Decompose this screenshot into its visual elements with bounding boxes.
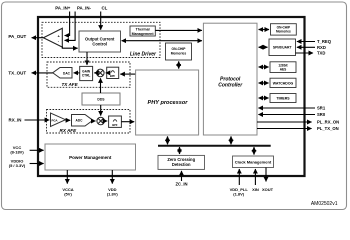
block PHY processor (136, 70, 199, 135)
pin VDD_PLL (230, 169, 249, 197)
wire Output Current Control to Protocol Controller (bidirectional) (122, 40, 202, 42)
mixer RX (97, 117, 105, 125)
wire PHY processor to BPF TX (120, 73, 135, 75)
wire ADC to mixer RX (93, 120, 96, 122)
svg-text:RX_IN: RX_IN (9, 118, 22, 123)
block SPI/6/UART (269, 39, 296, 56)
svg-text:TXD: TXD (317, 51, 325, 56)
wire Protocol Controller to bus (230, 136, 232, 144)
pin CL (101, 6, 108, 30)
pin VDD (107, 170, 119, 197)
RX AFE block (47, 110, 131, 134)
pin T_REQ (297, 39, 332, 44)
svg-text:TX AFE: TX AFE (62, 82, 79, 87)
svg-text:Management: Management (132, 32, 155, 36)
svg-text:XIN: XIN (252, 187, 259, 192)
svg-text:AES: AES (280, 67, 287, 71)
svg-text:Clock Management: Clock Management (235, 160, 272, 165)
pin TXD (296, 51, 326, 56)
system bus (158, 145, 271, 147)
block Power Management (45, 144, 136, 170)
filter BPF RX (109, 116, 122, 127)
block Clock Management (233, 156, 274, 168)
pin SR1 (258, 106, 325, 111)
wire Protocol Controller to 128bit AES (259, 66, 269, 68)
svg-text:DDS: DDS (97, 98, 105, 102)
wire PHY processor to bus (167, 136, 169, 144)
pin PL_TX_ON (257, 126, 339, 131)
svg-text:CTRL: CTRL (82, 73, 91, 77)
op-amp A1 line driver amplifier (43, 28, 62, 47)
svg-text:PA_IN-: PA_IN- (77, 6, 92, 11)
svg-text:XOUT: XOUT (262, 187, 274, 192)
svg-text:Controller: Controller (218, 83, 243, 89)
wire mixer RX to BPF RX (105, 120, 108, 122)
svg-text:PGA: PGA (52, 118, 58, 122)
DAC U2 (53, 68, 72, 79)
pin XOUT (262, 168, 274, 192)
svg-text:ON-CHIP: ON-CHIP (172, 47, 187, 51)
ADC U3 (72, 115, 93, 127)
mixer TX (97, 69, 105, 77)
filter BPF TX (107, 67, 119, 78)
wire DDS to mixer RX (100, 105, 102, 116)
svg-text:(5V): (5V) (64, 192, 72, 197)
svg-text:Control: Control (92, 42, 107, 47)
block Thermal Management (130, 26, 155, 36)
svg-text:(8-18V): (8-18V) (10, 149, 24, 154)
svg-text:PA_OUT: PA_OUT (8, 34, 26, 39)
svg-text:(5 / 3.3V): (5 / 3.3V) (9, 163, 26, 168)
svg-text:TX_OUT: TX_OUT (8, 70, 26, 75)
block GAIN CTRL (80, 66, 93, 80)
pin TX_OUT (8, 70, 52, 75)
svg-text:AM02502v1: AM02502v1 (311, 201, 338, 207)
svg-text:T_REQ: T_REQ (317, 39, 332, 44)
pin VCC (10, 145, 43, 155)
pin RX_IN (9, 118, 50, 123)
pin RXD (297, 45, 326, 50)
pin VDDIO (9, 158, 44, 168)
wire PGA to ADC (66, 119, 71, 121)
svg-text:SR1: SR1 (317, 106, 326, 111)
svg-text:PL_RX_ON: PL_RX_ON (317, 120, 339, 125)
block Protocol Controller (203, 23, 257, 135)
pin PA_OUT (8, 34, 43, 39)
block Output Current Control (79, 31, 121, 52)
block TIMERS (270, 94, 296, 103)
wire BPF TX to mixer TX (106, 72, 107, 74)
pin SR0 (258, 112, 325, 117)
block ON-CHIP Memories (protocol) (271, 24, 297, 35)
wire feedback from amplifier to Output Current Control (62, 47, 77, 49)
wire Thermal Management to Protocol Controller (155, 29, 202, 31)
wire BPF RX to PHY processor (121, 121, 134, 123)
svg-text:ZC_IN: ZC_IN (175, 181, 187, 186)
svg-text:ADC: ADC (76, 119, 84, 123)
wire ON-CHIP Memories to PHY processor (178, 61, 180, 68)
block Zero Crossing Detection (158, 155, 205, 169)
Line Driver block (42, 22, 160, 57)
svg-text:SR0: SR0 (317, 112, 326, 117)
pin PL_RX_ON (257, 120, 339, 125)
wire bus to Zero Crossing Detection (179, 147, 181, 154)
svg-text:Detection: Detection (172, 162, 191, 167)
svg-text:(1.8V): (1.8V) (233, 192, 245, 197)
svg-text:TIMERS: TIMERS (276, 97, 290, 101)
wire Protocol Controller to SPI/6/UART (259, 46, 268, 48)
TX AFE block (47, 62, 130, 87)
pin PA_IN- (65, 6, 92, 41)
pin ZC_IN (175, 171, 187, 186)
svg-text:PL_TX_ON: PL_TX_ON (317, 126, 339, 131)
svg-text:Memories: Memories (276, 30, 291, 34)
wire GAIN CTRL to DAC (74, 72, 80, 74)
svg-text:RXD: RXD (317, 45, 326, 50)
svg-text:CL: CL (101, 6, 107, 11)
block DDS (82, 93, 120, 105)
pin PA_IN+ (55, 6, 71, 36)
pin XIN (252, 169, 259, 192)
wire mixer TX to GAIN CTRL (94, 72, 96, 74)
svg-text:PA_IN+: PA_IN+ (55, 6, 71, 11)
svg-text:BPF: BPF (112, 123, 118, 127)
svg-text:PHY processor: PHY processor (147, 100, 188, 106)
svg-text:Memories: Memories (171, 51, 187, 55)
svg-text:Power Management: Power Management (69, 155, 112, 160)
svg-text:DAC: DAC (63, 71, 71, 75)
wire Output Current Control to GAIN CTRL (86, 52, 88, 65)
block 128bit AES (270, 62, 296, 73)
wire Protocol Controller to TIMERS (259, 97, 269, 99)
wire Protocol Controller to WATCHDOG (259, 82, 269, 84)
pin VCCA (62, 170, 73, 197)
chip boundary (38, 17, 305, 176)
wire Protocol Controller to ON-CHIP Memories (259, 29, 269, 31)
wire DDS to mixer TX (100, 78, 102, 93)
svg-text:BPF: BPF (110, 74, 116, 78)
amplifier PGA (51, 113, 66, 127)
svg-text:RX AFE: RX AFE (60, 128, 78, 133)
svg-text:Line Driver: Line Driver (130, 51, 157, 57)
block ON-CHIP Memories (PHY) (166, 43, 192, 60)
svg-text:WATCHDOG: WATCHDOG (273, 81, 294, 85)
svg-text:SPI/6/UART: SPI/6/UART (273, 46, 293, 50)
svg-text:(1.8V): (1.8V) (107, 192, 119, 197)
wire bus to Clock Management (253, 147, 255, 155)
block WATCHDOG (270, 78, 296, 87)
